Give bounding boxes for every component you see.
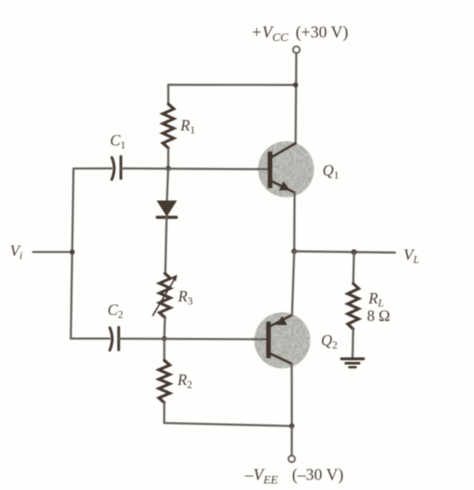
svg-text:8 Ω: 8 Ω — [367, 308, 390, 325]
svg-text:C1: C1 — [110, 132, 126, 151]
wire VCC vertical rail — [295, 54, 298, 144]
node junction top rail — [293, 82, 298, 87]
terminal +VCC open circle — [293, 46, 300, 53]
wire Q1 emitter to output node — [293, 193, 295, 252]
wire R3 to C2 junction — [163, 318, 166, 339]
wire Q2 base overlay — [252, 338, 267, 340]
svg-text:Vi: Vi — [10, 243, 22, 262]
wire C1 right lead to Q1 base — [121, 167, 268, 170]
wire Q1 base overlay — [256, 168, 268, 170]
wire Q2 collector to bottom rail — [291, 364, 293, 426]
resistor R1 — [163, 104, 174, 148]
diode D1 — [157, 201, 176, 217]
capacitor C2 — [110, 327, 119, 350]
node output junction — [291, 249, 297, 255]
wire C1 left lead — [74, 167, 112, 169]
wire RL to ground — [351, 329, 354, 358]
svg-text:VL: VL — [404, 247, 420, 266]
svg-text:+VCC (+30 V): +VCC (+30 V) — [251, 23, 348, 45]
wire R1 bottom stub — [167, 148, 169, 168]
wire R2 bottom stub — [163, 403, 165, 423]
resistor RL — [348, 284, 359, 329]
transistor Q1 emitter lead — [271, 181, 295, 193]
wire C2 left lead — [71, 338, 110, 340]
transistor Q2 base bar — [266, 322, 271, 359]
arrow of variable resistor R3 — [153, 275, 177, 316]
wire RL top lead — [352, 252, 355, 284]
wire C2 right lead to Q2 base — [119, 338, 267, 341]
wire junction to diode — [167, 168, 168, 201]
svg-text:Q2: Q2 — [321, 333, 337, 352]
node bottom junction — [289, 423, 294, 428]
svg-text:R2: R2 — [177, 372, 193, 391]
node Vi junction — [70, 249, 75, 254]
wire top horizontal — [168, 84, 295, 86]
wire output node to Q2 emitter — [292, 251, 294, 315]
svg-text:Q1: Q1 — [323, 163, 339, 182]
transistor Q2 body — [254, 312, 310, 368]
svg-text:R1: R1 — [180, 117, 196, 136]
wire Vi stub — [33, 251, 72, 253]
svg-text:RL: RL — [368, 291, 384, 310]
transistor Q1 collector lead — [271, 143, 296, 157]
transistor Q1 body — [258, 141, 314, 197]
transistor Q1 base bar — [268, 152, 273, 189]
transistor Q2 emitter arrow — [276, 316, 288, 325]
resistor R3 (variable) — [159, 274, 170, 318]
transistor Q2 emitter lead — [270, 315, 292, 326]
wire R2 top stub — [163, 339, 165, 361]
terminal -VEE open circle — [288, 456, 295, 463]
wire R1 top stub — [167, 85, 169, 104]
wire left input rail — [71, 169, 74, 339]
wire diode to R3 — [165, 217, 166, 273]
transistor Q2 collector lead — [270, 353, 292, 363]
node junction C1 line — [166, 166, 171, 171]
wire to -VEE terminal — [291, 426, 293, 455]
wire bottom horizontal — [164, 423, 292, 426]
node junction C2 line — [162, 336, 167, 341]
ground symbol — [342, 359, 364, 367]
svg-text:C2: C2 — [108, 302, 124, 321]
resistor R2 — [159, 360, 170, 402]
node RL junction — [351, 249, 357, 255]
capacitor C1 — [112, 157, 121, 180]
svg-text:–VEE (–30 V): –VEE (–30 V) — [244, 465, 344, 487]
transistor Q1 emitter arrow — [279, 181, 290, 190]
svg-text:R3: R3 — [177, 289, 193, 308]
wire output horizontal — [294, 251, 395, 252]
